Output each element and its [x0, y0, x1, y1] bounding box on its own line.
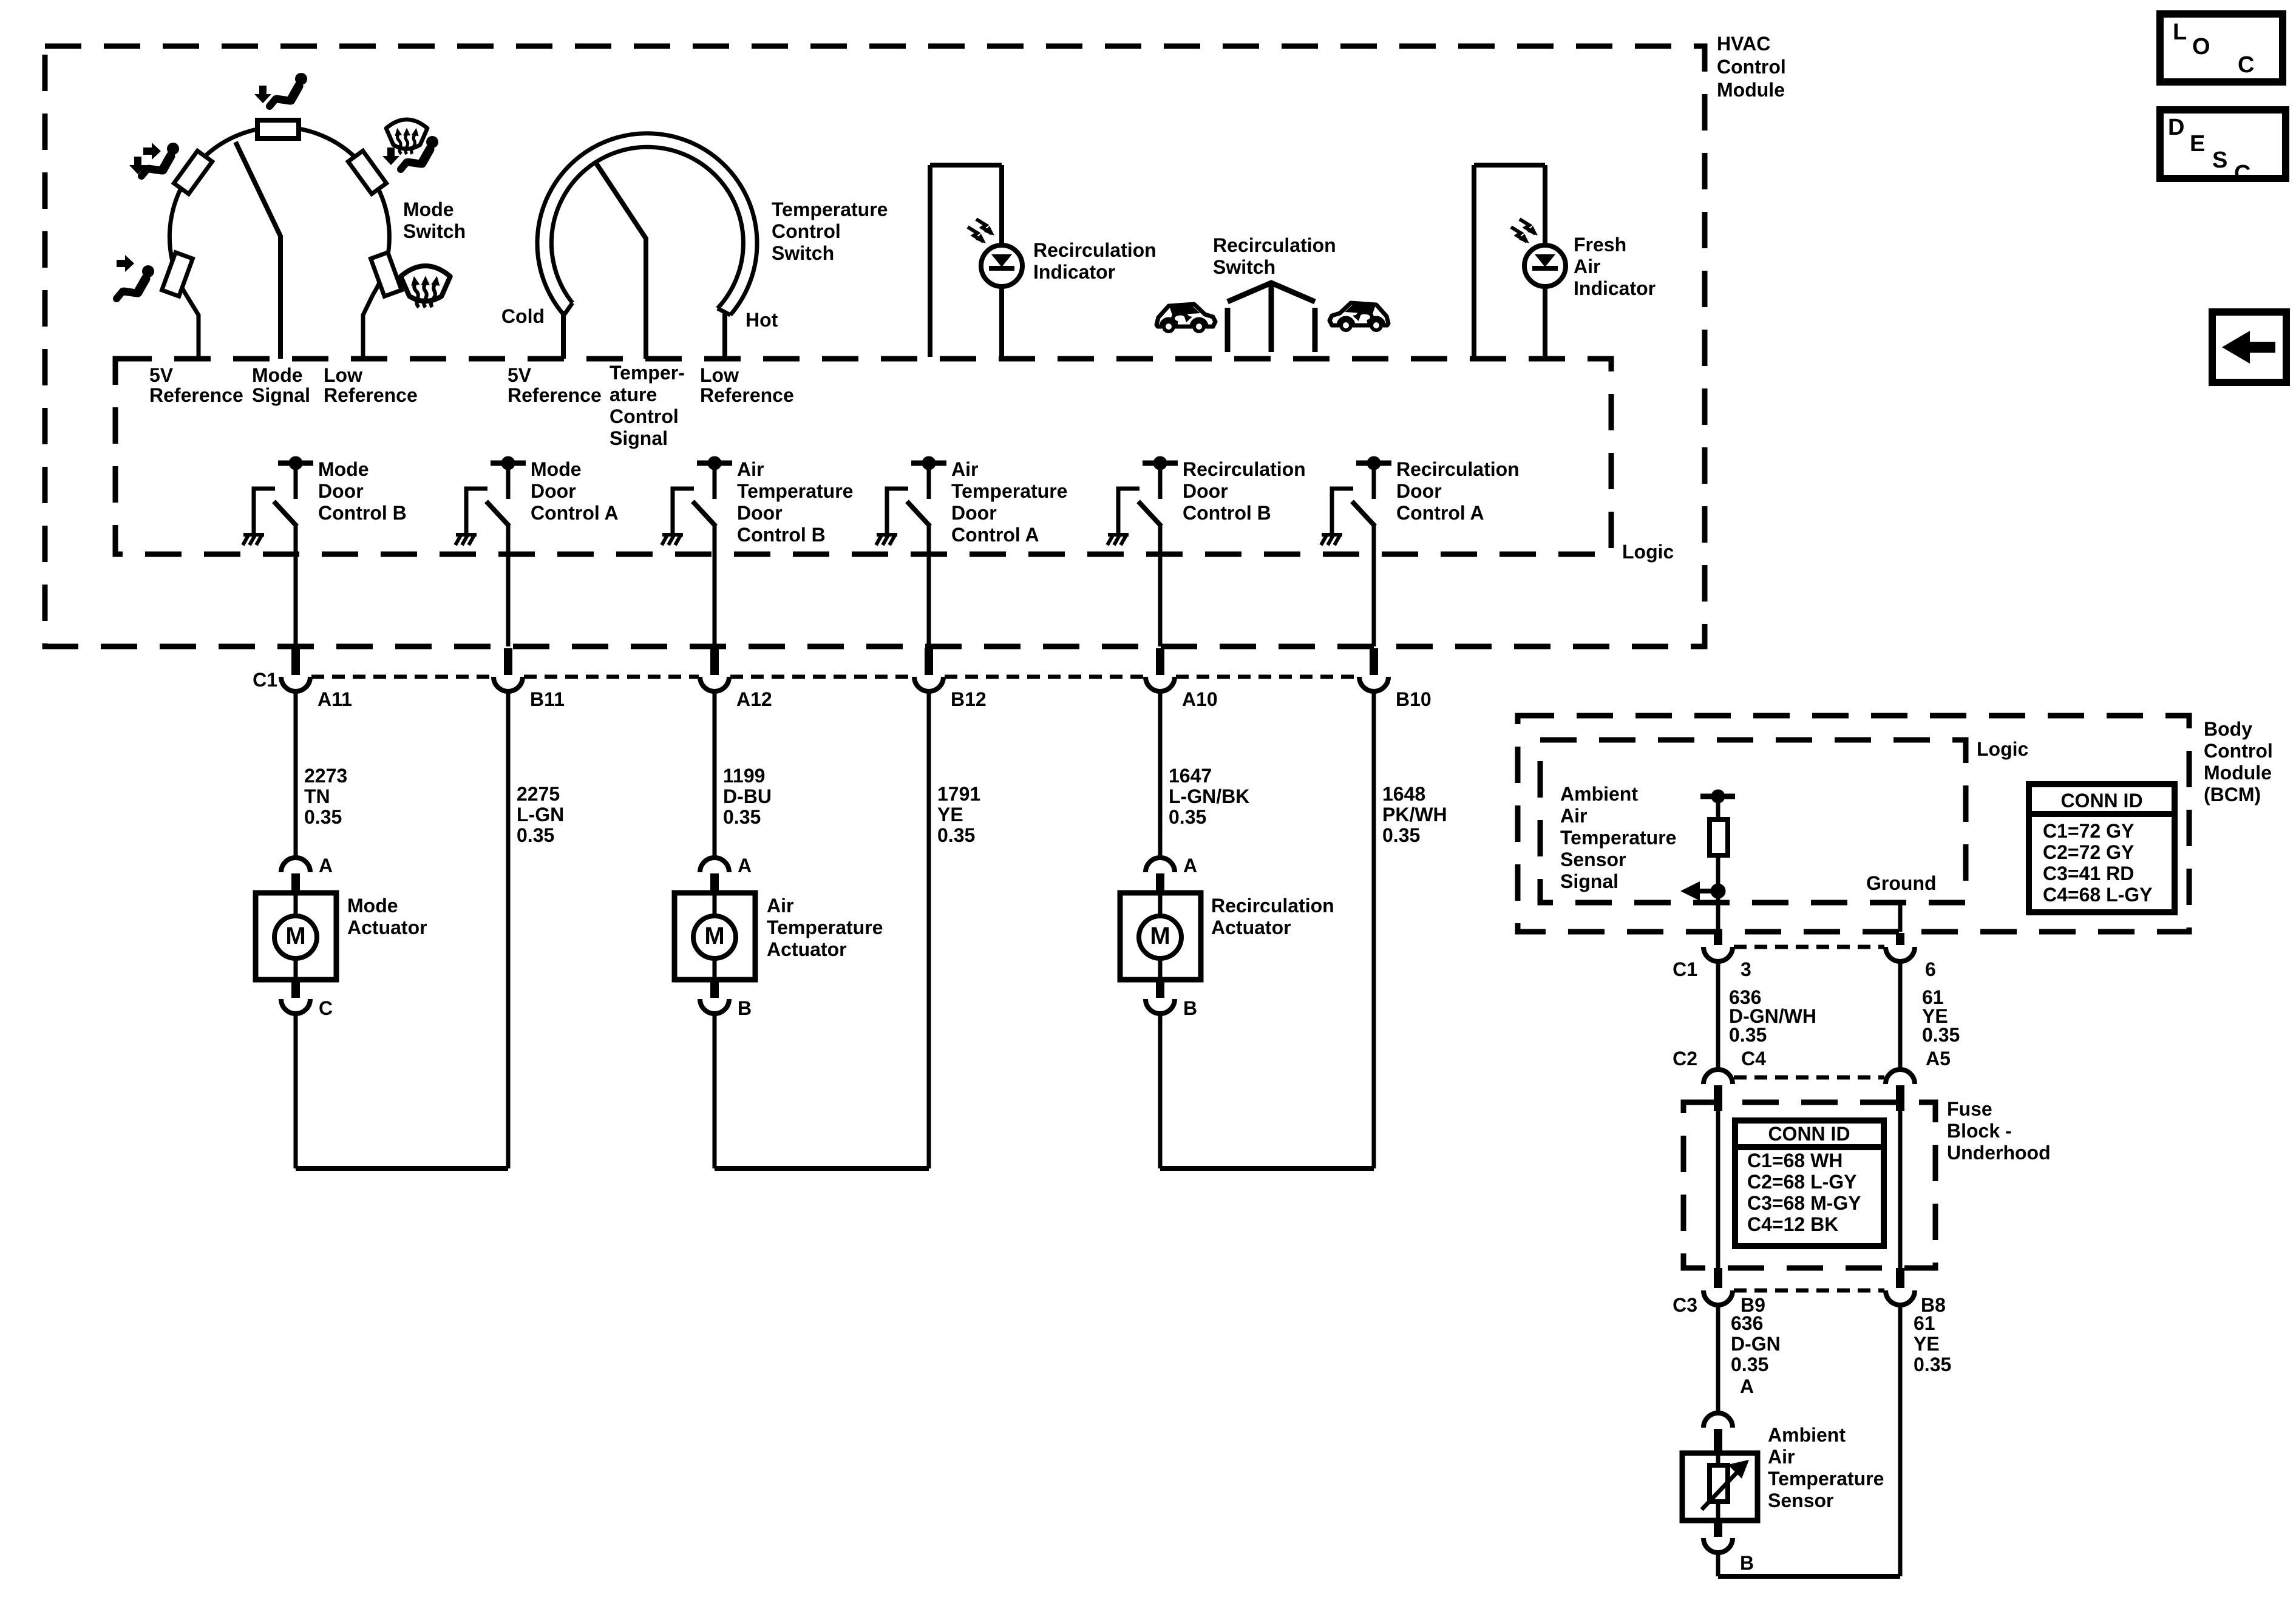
svg-text:Logic: Logic [1622, 541, 1674, 563]
svg-text:C: C [319, 997, 333, 1019]
svg-text:HVAC: HVAC [1717, 33, 1770, 55]
svg-text:CONN ID: CONN ID [2060, 790, 2142, 812]
svg-text:Control: Control [610, 405, 679, 427]
svg-text:Door: Door [1396, 480, 1442, 502]
svg-text:A: A [319, 855, 333, 876]
svg-text:C3=41 RD: C3=41 RD [2043, 863, 2134, 884]
svg-text:Signal: Signal [610, 427, 668, 449]
svg-text:Sensor: Sensor [1560, 849, 1626, 870]
svg-text:Indicator: Indicator [1033, 261, 1115, 283]
svg-text:Control B: Control B [737, 524, 826, 546]
svg-text:B10: B10 [1396, 688, 1432, 710]
svg-text:C4: C4 [1741, 1048, 1766, 1070]
svg-text:Control: Control [2204, 740, 2273, 762]
svg-text:Actuator: Actuator [347, 917, 427, 938]
svg-text:(BCM): (BCM) [2204, 784, 2261, 805]
svg-text:1791: 1791 [937, 783, 980, 805]
svg-text:Mode: Mode [531, 458, 582, 480]
svg-text:ature: ature [610, 384, 657, 405]
svg-text:Air: Air [951, 458, 978, 480]
svg-text:D-BU: D-BU [723, 785, 772, 807]
svg-text:Air: Air [767, 895, 793, 917]
svg-text:YE: YE [937, 804, 963, 825]
svg-text:A5: A5 [1926, 1048, 1951, 1070]
svg-text:B: B [738, 997, 752, 1019]
svg-text:0.35: 0.35 [1914, 1354, 1951, 1375]
svg-text:A: A [1740, 1375, 1754, 1397]
svg-text:A: A [1183, 855, 1197, 876]
svg-text:5V: 5V [149, 364, 174, 386]
svg-text:Underhood: Underhood [1947, 1142, 2051, 1164]
svg-text:C3=68 M-GY: C3=68 M-GY [1747, 1192, 1861, 1214]
svg-text:1199: 1199 [723, 765, 765, 787]
svg-text:C: C [2238, 52, 2254, 78]
svg-text:0.35: 0.35 [1729, 1024, 1767, 1046]
svg-text:61: 61 [1914, 1312, 1935, 1334]
svg-text:Control B: Control B [1183, 502, 1271, 524]
svg-text:Actuator: Actuator [767, 938, 847, 960]
svg-text:Signal: Signal [1560, 870, 1618, 892]
svg-text:Door: Door [1183, 480, 1228, 502]
svg-text:Cold: Cold [501, 305, 545, 327]
svg-text:A10: A10 [1182, 688, 1218, 710]
svg-text:B: B [1183, 997, 1197, 1019]
svg-text:Recirculation: Recirculation [1213, 234, 1336, 256]
svg-text:A11: A11 [318, 688, 352, 710]
svg-text:O: O [2192, 34, 2210, 59]
svg-text:1648: 1648 [1382, 783, 1425, 805]
svg-text:6: 6 [1925, 958, 1936, 980]
svg-text:M: M [285, 923, 305, 949]
svg-text:A12: A12 [736, 688, 772, 710]
svg-text:Control A: Control A [951, 524, 1039, 546]
svg-text:Indicator: Indicator [1574, 277, 1656, 299]
svg-text:0.35: 0.35 [1731, 1354, 1768, 1375]
svg-text:Temperature: Temperature [772, 198, 888, 220]
svg-text:C3: C3 [1673, 1294, 1697, 1316]
svg-text:Temperature: Temperature [951, 480, 1067, 502]
svg-text:M: M [1150, 923, 1170, 949]
svg-text:0.35: 0.35 [517, 824, 554, 846]
svg-text:1647: 1647 [1169, 765, 1212, 787]
svg-text:B: B [1740, 1552, 1754, 1574]
svg-text:L-GN: L-GN [517, 804, 564, 825]
svg-text:M: M [704, 923, 724, 949]
svg-text:C4=68 L-GY: C4=68 L-GY [2043, 884, 2153, 906]
svg-text:Reference: Reference [700, 384, 794, 406]
svg-text:Control A: Control A [1396, 502, 1484, 524]
svg-text:0.35: 0.35 [1169, 806, 1206, 828]
svg-text:C2=72 GY: C2=72 GY [2043, 841, 2134, 863]
svg-text:Temperature: Temperature [737, 480, 853, 502]
svg-text:0.35: 0.35 [304, 806, 342, 828]
svg-text:0.35: 0.35 [723, 806, 761, 828]
svg-text:C2: C2 [1673, 1048, 1697, 1070]
svg-text:Control: Control [1717, 56, 1786, 78]
svg-text:Control A: Control A [531, 502, 619, 524]
svg-text:Logic: Logic [1977, 738, 2028, 760]
svg-text:Low: Low [700, 364, 739, 386]
svg-text:Recirculation: Recirculation [1211, 895, 1334, 917]
svg-text:Temperature: Temperature [767, 917, 883, 938]
svg-text:Mode: Mode [403, 198, 454, 220]
svg-text:Air: Air [737, 458, 764, 480]
svg-text:Mode: Mode [252, 364, 303, 386]
svg-text:Temper-: Temper- [610, 362, 685, 384]
svg-text:Door: Door [531, 480, 576, 502]
svg-text:A: A [738, 855, 752, 876]
svg-text:C1=72 GY: C1=72 GY [2043, 820, 2134, 842]
svg-text:Module: Module [2204, 762, 2272, 784]
svg-text:L-GN/BK: L-GN/BK [1169, 785, 1249, 807]
svg-text:2273: 2273 [304, 765, 347, 787]
svg-text:Air: Air [1560, 805, 1587, 827]
svg-text:Body: Body [2204, 718, 2252, 740]
svg-text:Switch: Switch [1213, 256, 1275, 278]
svg-text:Hot: Hot [746, 309, 778, 331]
svg-text:Sensor: Sensor [1768, 1490, 1833, 1511]
svg-text:Control: Control [772, 220, 841, 242]
svg-text:Reference: Reference [324, 384, 418, 406]
svg-text:C4=12 BK: C4=12 BK [1747, 1213, 1838, 1235]
svg-text:Ground: Ground [1866, 872, 1937, 894]
svg-text:0.35: 0.35 [1382, 824, 1420, 846]
svg-text:Mode: Mode [347, 895, 398, 917]
svg-text:0.35: 0.35 [1922, 1024, 1960, 1046]
svg-text:C: C [2234, 161, 2250, 186]
svg-text:0.35: 0.35 [937, 824, 975, 846]
svg-text:Reference: Reference [508, 384, 602, 406]
svg-text:Ambient: Ambient [1768, 1424, 1846, 1446]
svg-text:Fuse: Fuse [1947, 1098, 1992, 1120]
svg-text:C1=68 WH: C1=68 WH [1747, 1150, 1843, 1171]
svg-text:Mode: Mode [318, 458, 369, 480]
svg-text:Door: Door [951, 502, 997, 524]
svg-text:E: E [2190, 131, 2205, 157]
svg-text:Door: Door [318, 480, 364, 502]
svg-text:Switch: Switch [772, 242, 834, 264]
svg-text:Block -: Block - [1947, 1120, 2012, 1142]
svg-text:Control B: Control B [318, 502, 407, 524]
svg-text:Door: Door [737, 502, 783, 524]
svg-text:YE: YE [1914, 1333, 1940, 1355]
svg-text:D: D [2168, 115, 2184, 140]
svg-text:Signal: Signal [252, 384, 310, 406]
svg-text:3: 3 [1741, 958, 1751, 980]
svg-text:Temperature: Temperature [1768, 1468, 1884, 1490]
svg-text:Recirculation: Recirculation [1396, 458, 1520, 480]
svg-text:B11: B11 [530, 688, 565, 710]
svg-text:PK/WH: PK/WH [1382, 804, 1447, 825]
svg-text:TN: TN [304, 785, 330, 807]
svg-text:D-GN: D-GN [1731, 1333, 1781, 1355]
svg-text:636: 636 [1731, 1312, 1763, 1334]
svg-text:Recirculation: Recirculation [1033, 239, 1156, 261]
svg-text:5V: 5V [508, 364, 532, 386]
svg-text:CONN ID: CONN ID [1768, 1123, 1850, 1145]
svg-text:Low: Low [324, 364, 362, 386]
svg-text:L: L [2173, 19, 2187, 45]
svg-text:S: S [2212, 147, 2227, 173]
svg-text:Module: Module [1717, 79, 1785, 101]
svg-text:Air: Air [1768, 1446, 1795, 1468]
svg-text:Actuator: Actuator [1211, 917, 1291, 938]
svg-text:C1: C1 [1673, 958, 1697, 980]
svg-text:Ambient: Ambient [1560, 783, 1638, 805]
svg-text:Switch: Switch [403, 220, 466, 242]
svg-text:Temperature: Temperature [1560, 827, 1676, 849]
svg-text:C1: C1 [253, 669, 277, 691]
svg-text:Reference: Reference [149, 384, 243, 406]
svg-text:Fresh: Fresh [1574, 234, 1626, 256]
svg-text:Recirculation: Recirculation [1183, 458, 1306, 480]
svg-text:Air: Air [1574, 256, 1600, 277]
svg-text:B12: B12 [951, 688, 987, 710]
svg-text:C2=68 L-GY: C2=68 L-GY [1747, 1171, 1857, 1193]
svg-text:2275: 2275 [517, 783, 560, 805]
